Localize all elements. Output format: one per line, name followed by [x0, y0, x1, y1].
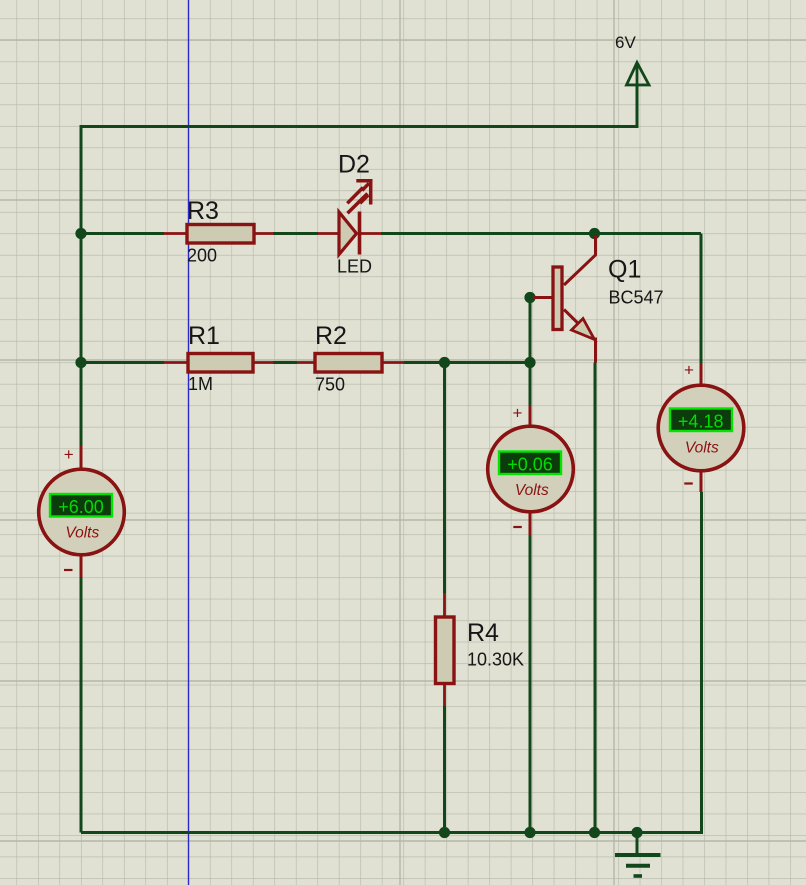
node: base junction	[524, 292, 535, 303]
node: bottom emitter	[589, 827, 600, 838]
voltmeter VM3 (+4.18)	[658, 361, 744, 493]
svg-text:1M: 1M	[188, 374, 213, 394]
voltmeter VM1 (+6.00)	[39, 445, 125, 577]
voltmeter VM2 (+0.06)	[488, 404, 574, 537]
svg-text:750: 750	[315, 375, 345, 395]
wire: middle meter bottom	[529, 536, 532, 833]
svg-text:10.30K: 10.30K	[467, 650, 524, 670]
svg-text:6V: 6V	[615, 33, 636, 52]
emitter	[564, 310, 596, 363]
wire: left meter top	[80, 363, 83, 447]
node: R2 / R4 junction	[439, 357, 450, 368]
svg-text:R1: R1	[188, 322, 220, 350]
wire: R2 to base column	[404, 361, 530, 364]
resistor R1	[164, 322, 274, 394]
svg-text:R4: R4	[467, 619, 499, 647]
node: collector on LED row	[589, 228, 600, 239]
wire: R3 row left segment	[81, 232, 164, 235]
power symbol 6V	[627, 63, 650, 127]
wire: right rail down to voltmeter	[700, 234, 703, 364]
wire: top power rail	[81, 85, 637, 833]
emitter arrowhead	[572, 319, 595, 340]
svg-text:+0.06: +0.06	[507, 455, 553, 475]
LED D2	[318, 151, 381, 277]
svg-text:LED: LED	[337, 257, 372, 277]
blue sheet border line	[188, 0, 190, 885]
wire: bottom rail	[81, 492, 702, 833]
svg-text:BC547: BC547	[609, 288, 664, 308]
svg-text:+: +	[513, 404, 523, 423]
resistor R3	[164, 197, 274, 266]
wire: R3 to LED segment	[273, 232, 318, 235]
wire: emitter rail	[594, 363, 597, 833]
resistor R4	[436, 593, 525, 706]
svg-text:Volts: Volts	[65, 525, 99, 542]
wire: base column vertical	[529, 298, 532, 406]
svg-text:Volts: Volts	[515, 482, 549, 499]
transistor Q1	[533, 236, 664, 363]
base lead	[533, 296, 552, 299]
node: power rail / R3 row	[75, 228, 86, 239]
node: bottom R4	[439, 827, 450, 838]
svg-text:+: +	[684, 361, 694, 380]
collector	[564, 236, 596, 285]
svg-text:R3: R3	[187, 197, 219, 225]
wire: R4 column bottom	[443, 706, 446, 833]
wire: R1 row left segment	[81, 361, 164, 364]
node: bottom middle meter	[524, 827, 535, 838]
svg-text:+4.18: +4.18	[678, 412, 724, 432]
wire: LED to collector node	[381, 232, 701, 235]
resistor R2	[297, 322, 404, 395]
svg-text:Volts: Volts	[685, 440, 719, 457]
svg-text:+: +	[64, 445, 74, 464]
bar	[553, 267, 562, 330]
svg-text:+6.00: +6.00	[58, 497, 104, 517]
wire: left meter bottom	[80, 577, 83, 833]
ground	[615, 833, 661, 877]
svg-text:Q1: Q1	[608, 256, 641, 284]
wire: R1 to R2 segment	[273, 361, 297, 364]
node: bottom ground	[631, 827, 642, 838]
svg-text:200: 200	[187, 246, 217, 266]
node: power rail / R1 row	[75, 357, 86, 368]
svg-text:R2: R2	[315, 322, 347, 350]
LED arrows	[347, 180, 372, 214]
node: base column / R2 row	[524, 357, 535, 368]
wire: R4 column top	[443, 363, 446, 594]
svg-text:D2: D2	[338, 151, 370, 179]
